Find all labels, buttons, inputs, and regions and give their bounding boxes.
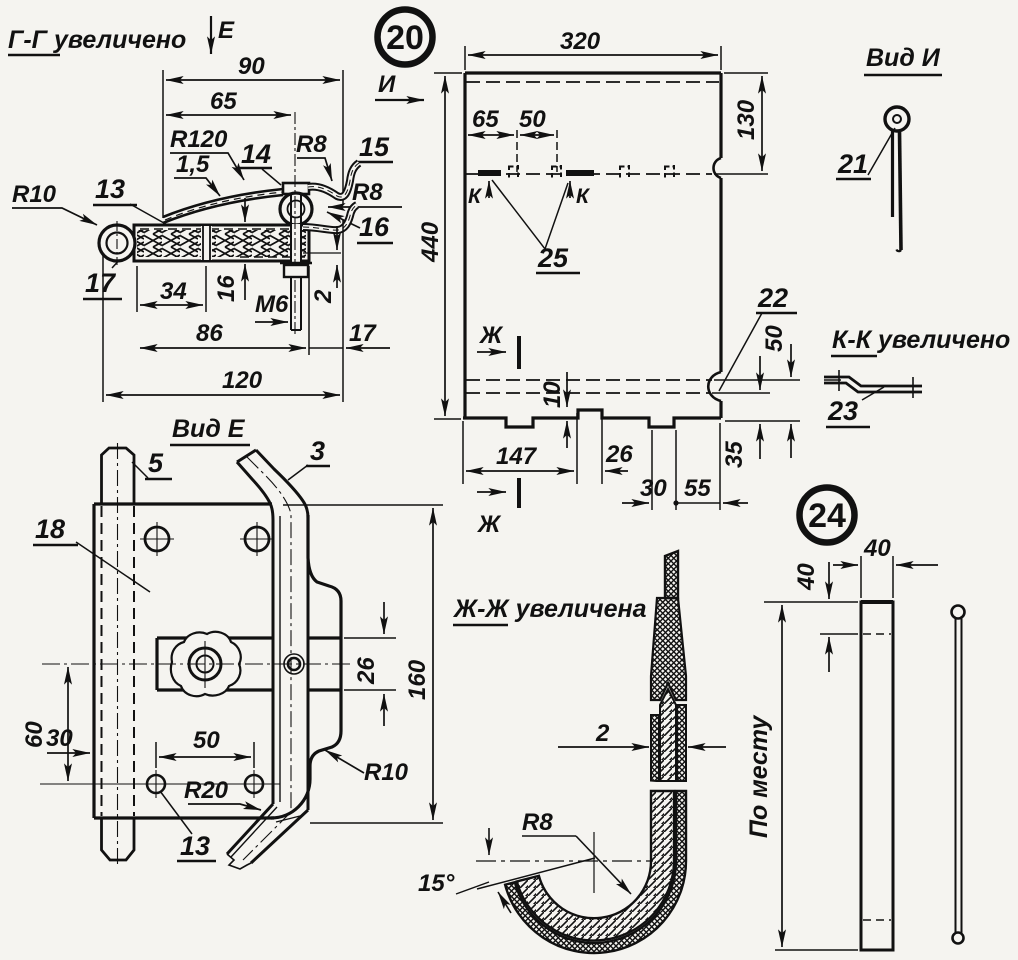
svg-text:50: 50	[761, 325, 788, 352]
label 13 leader	[95, 174, 125, 204]
svg-text:Е: Е	[218, 17, 235, 44]
washer under bar	[280, 262, 312, 265]
svg-text:15: 15	[359, 132, 390, 162]
svg-text:120: 120	[222, 367, 263, 394]
slot bar	[157, 638, 341, 690]
title K-K uvelicheno	[832, 326, 1010, 354]
dimension 17	[342, 220, 344, 355]
hook top tail	[665, 551, 678, 598]
svg-text:50: 50	[519, 106, 546, 133]
dimension 147	[462, 421, 464, 484]
svg-text:2: 2	[595, 720, 610, 747]
svg-text:17: 17	[349, 320, 377, 347]
svg-text:30: 30	[46, 725, 73, 752]
title G-G uvelicheno	[8, 26, 186, 54]
label 17 part leader	[85, 268, 117, 298]
dashed fold line upper	[466, 173, 712, 175]
view arrow I	[378, 71, 396, 98]
svg-text:R20: R20	[184, 777, 229, 804]
svg-text:13: 13	[180, 831, 210, 861]
cotter pin 21 legs	[891, 130, 894, 217]
dimension 35 right	[712, 392, 770, 394]
hole upper-left	[145, 527, 169, 551]
wooden bar body	[134, 225, 309, 261]
strip inside hook lower (bends around U)	[517, 791, 674, 941]
svg-text:147: 147	[496, 443, 538, 470]
part badge 20	[378, 10, 433, 65]
wire pin with eyelets	[952, 606, 965, 619]
K section marks	[488, 181, 490, 198]
dimension 30 bottom	[651, 430, 653, 510]
label M6 leader	[255, 291, 289, 318]
label 16 leader	[359, 212, 390, 242]
dimension 10	[566, 372, 568, 407]
cam plate around hole	[171, 632, 241, 696]
hook right wall	[677, 705, 686, 781]
strip 24 body	[861, 602, 893, 950]
label 3 leader	[310, 436, 325, 466]
nut M6	[284, 265, 308, 277]
dimension 50 right	[714, 379, 800, 381]
dimension 40 width	[860, 556, 862, 598]
svg-text:Ж: Ж	[476, 511, 502, 538]
dimension 160	[283, 504, 443, 506]
dimension 26	[344, 637, 396, 639]
svg-text:90: 90	[238, 53, 265, 80]
dimension 50 top	[556, 130, 558, 172]
svg-text:130: 130	[733, 99, 760, 140]
fold notch right upper	[714, 158, 722, 178]
svg-text:160: 160	[404, 659, 431, 700]
dimension 440	[434, 72, 462, 74]
dimension 16 vertical	[244, 198, 246, 222]
svg-text:320: 320	[560, 28, 601, 55]
svg-text:15°: 15°	[418, 870, 455, 897]
svg-text:R8: R8	[522, 809, 553, 836]
svg-text:50: 50	[193, 727, 220, 754]
label 14 leader	[241, 139, 271, 169]
svg-text:60: 60	[21, 721, 48, 748]
label 23 leader	[827, 396, 858, 426]
plate 18 outline	[94, 504, 274, 818]
bend tick	[276, 816, 300, 822]
rod 5 centerline	[117, 443, 119, 866]
svg-text:К: К	[468, 185, 483, 208]
label 15 deg	[418, 870, 455, 897]
svg-text:65: 65	[472, 106, 499, 133]
label R120 leader	[170, 126, 228, 153]
loop end (R10 curl)	[99, 225, 135, 261]
lower holes centerline	[40, 783, 280, 785]
rod 5 visible below plate	[102, 818, 135, 860]
svg-text:И: И	[378, 71, 396, 98]
label 13 leader	[180, 831, 210, 861]
dashed edge line top	[466, 81, 719, 83]
rivet 13	[201, 226, 212, 260]
label 1,5 leader	[176, 151, 210, 178]
dimension 26 bottom	[601, 413, 603, 484]
hole upper-right	[245, 527, 269, 551]
dimension 86	[308, 266, 310, 355]
main horizontal centerline	[42, 663, 352, 665]
svg-text:17: 17	[85, 268, 117, 298]
rod 5 visible above plate	[102, 448, 135, 504]
svg-text:24: 24	[808, 497, 846, 535]
svg-text:40: 40	[793, 563, 820, 591]
svg-text:13: 13	[95, 174, 125, 204]
hook outer wall lower (wraps U outside)	[505, 791, 686, 953]
slot mark 2	[552, 165, 561, 178]
svg-text:440: 440	[417, 221, 444, 263]
bolt M6 head	[283, 183, 309, 194]
svg-text:16: 16	[213, 275, 240, 302]
svg-text:R8: R8	[352, 179, 383, 206]
svg-text:Ж-Ж увеличена: Ж-Ж увеличена	[452, 595, 647, 623]
svg-text:К-К увеличено: К-К увеличено	[832, 326, 1010, 354]
dimension 2 thickness	[595, 720, 610, 747]
hook upper tapered body	[651, 598, 686, 700]
label 22 leader	[757, 283, 788, 313]
dashed fold line lower 1	[466, 379, 712, 381]
svg-text:Г-Г увеличено: Г-Г увеличено	[8, 26, 186, 54]
label 25 leaders	[537, 243, 569, 273]
plate right edge with tab and R10 fillets	[271, 515, 341, 818]
strip 3 break line	[227, 854, 251, 869]
svg-text:40: 40	[863, 535, 891, 562]
dimension Po mestu	[775, 949, 858, 951]
slot mark 3	[620, 165, 629, 178]
svg-text:65: 65	[210, 88, 237, 115]
center hole	[189, 648, 221, 680]
label R8 upper leader	[296, 131, 327, 158]
rod 5 hidden behind plate	[101, 506, 103, 816]
svg-text:1,5: 1,5	[176, 151, 210, 178]
svg-text:R10: R10	[12, 181, 57, 208]
title Vid E	[172, 415, 246, 443]
strap 15 S-curve	[308, 163, 359, 197]
dimension 120	[102, 255, 104, 402]
svg-text:30: 30	[640, 475, 667, 502]
15 degree arrows	[488, 828, 490, 855]
svg-text:R120: R120	[170, 126, 228, 153]
svg-text:34: 34	[160, 278, 187, 305]
dimension 30	[47, 752, 90, 754]
dimension 130	[724, 72, 768, 74]
rivet hole on strip	[284, 654, 304, 674]
label 5 leader	[148, 448, 164, 478]
dimension 34	[136, 266, 138, 312]
svg-text:К: К	[576, 185, 591, 208]
svg-text:26: 26	[353, 657, 380, 685]
dimension 50 lower	[155, 742, 157, 768]
weld mark 2	[566, 170, 594, 176]
dimension 90	[162, 70, 164, 218]
section mark Zh upper	[478, 322, 504, 349]
label R10 leader	[364, 759, 409, 786]
hole lower-right	[245, 775, 263, 793]
dimension 60	[67, 667, 69, 700]
hook left wall below mouth	[651, 715, 659, 781]
dimension 2 vertical	[336, 226, 338, 250]
dimension 55 bottom	[719, 423, 721, 510]
label 18 leader	[35, 514, 65, 544]
bend centerlines	[476, 860, 653, 862]
svg-text:Вид И: Вид И	[866, 44, 941, 72]
svg-text:3: 3	[310, 436, 325, 466]
slot mark 4	[665, 165, 674, 178]
strap 16 hook	[303, 205, 357, 230]
svg-text:Вид Е: Вид Е	[172, 415, 246, 443]
title Vid I	[866, 44, 941, 72]
slot mark 1	[509, 165, 518, 178]
svg-text:16: 16	[359, 212, 390, 242]
svg-text:22: 22	[757, 283, 788, 313]
svg-text:86: 86	[196, 320, 223, 347]
hidden dashed line in bar	[140, 228, 300, 230]
fold dashed lines	[863, 633, 891, 635]
strip 24 inside hook upper	[660, 689, 676, 781]
label R10 leader	[12, 181, 57, 208]
drawing break white gap	[644, 781, 694, 792]
spring coil around bolt	[280, 193, 312, 225]
svg-text:55: 55	[684, 475, 711, 502]
dimension 40 top height	[764, 601, 858, 603]
svg-text:35: 35	[721, 441, 748, 468]
svg-text:14: 14	[241, 139, 271, 169]
label 15 leader	[359, 132, 390, 162]
plate 20 outline	[463, 73, 721, 427]
svg-text:Ж: Ж	[478, 322, 504, 349]
label R20 leader	[184, 777, 229, 804]
svg-text:10: 10	[539, 381, 566, 408]
title Zh-Zh uvelichena	[452, 595, 647, 623]
svg-text:25: 25	[537, 243, 569, 273]
label R8 lower leader	[352, 179, 383, 206]
bolt shaft	[291, 224, 301, 262]
svg-text:По месту: По месту	[745, 715, 773, 838]
svg-text:5: 5	[148, 448, 164, 478]
cotter pin 21 head	[885, 107, 909, 131]
svg-text:26: 26	[605, 441, 633, 468]
dimension 65	[516, 130, 518, 172]
svg-text:2: 2	[310, 289, 337, 304]
svg-text:R10: R10	[364, 759, 409, 786]
dimension 65	[166, 114, 291, 116]
strip 3 centerline	[243, 457, 291, 860]
section 23 sheet profile	[824, 377, 922, 386]
leaf spring 14	[163, 189, 283, 217]
15 degree line	[477, 858, 595, 889]
label 21 leader	[837, 149, 868, 179]
svg-text:21: 21	[837, 149, 868, 179]
section mark Zh lower	[477, 491, 506, 493]
part badge 24	[800, 488, 855, 543]
strip 3 bottom bend	[227, 804, 273, 854]
arrow E section direction	[210, 16, 212, 54]
fold notch right lower (22)	[708, 372, 721, 401]
dimension 320	[464, 46, 466, 70]
weld mark 1	[478, 170, 501, 176]
label R8 leader	[522, 809, 553, 836]
strip 3 inner fold line	[231, 516, 280, 857]
hole lower-left	[147, 775, 165, 793]
svg-text:М6: М6	[255, 291, 289, 318]
strip 3 upper part	[237, 462, 273, 804]
dashed fold line lower 2	[466, 392, 710, 394]
svg-text:20: 20	[386, 19, 424, 57]
svg-text:R8: R8	[296, 131, 327, 158]
svg-text:23: 23	[827, 396, 858, 426]
svg-text:18: 18	[35, 514, 65, 544]
